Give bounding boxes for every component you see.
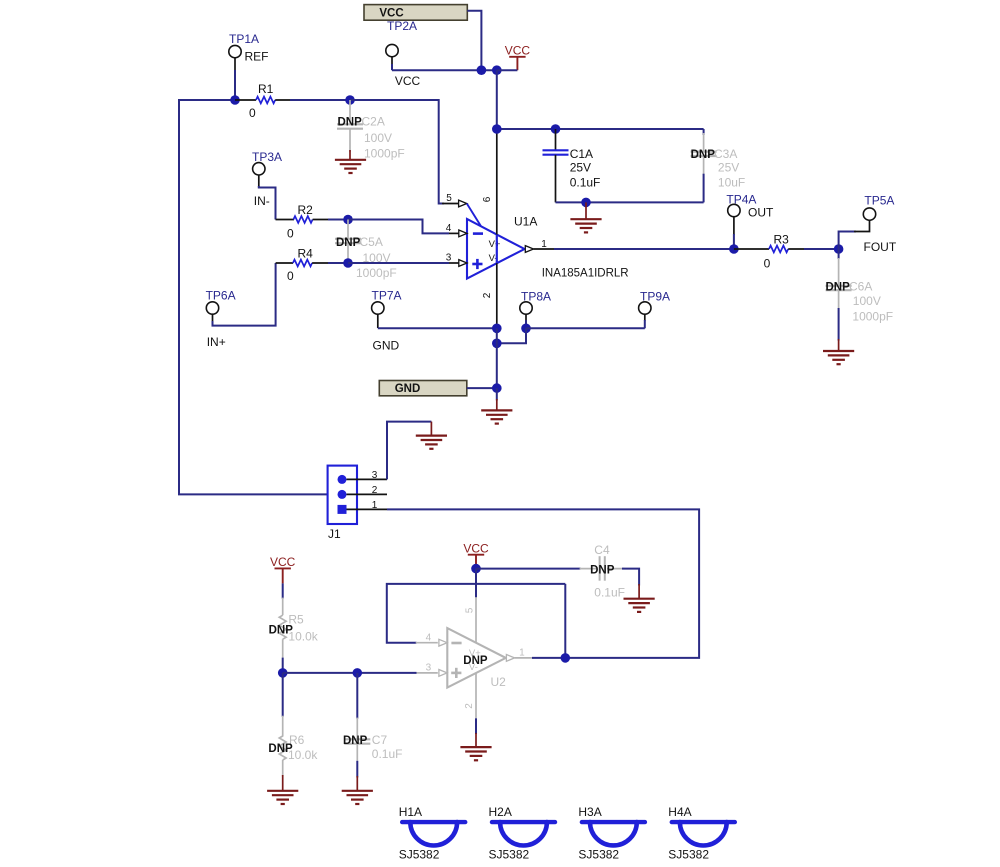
wire R2 to node [328,219,348,221]
test point TP5A [839,194,897,255]
test point TP6A [206,289,236,350]
standoff H1A [399,805,466,862]
wire C4 to ground [622,569,639,586]
J1 pin 3 [338,470,388,484]
svg-text:TP3A: TP3A [252,150,282,164]
test point TP7A [372,289,402,353]
svg-text:V+: V+ [489,239,501,250]
svg-text:1000pF: 1000pF [364,147,405,161]
ground R6 [267,775,298,804]
ground C7 [342,776,373,804]
power port VCC box [364,5,467,21]
power port GND box [379,381,467,396]
svg-text:TP2A: TP2A [387,19,417,33]
standoff H2A [489,805,556,862]
wire VCC row to C1A [497,128,704,130]
resistor R1 [235,82,292,120]
wire VCC box to junction [467,11,481,70]
svg-text:5: 5 [446,193,452,204]
svg-text:U2: U2 [491,675,507,689]
svg-text:0.1uF: 0.1uF [594,586,625,600]
wire trunk VCC down [496,70,498,129]
standoff H4A [668,805,735,862]
U1A pin 2 V- [482,263,497,328]
junction node R1/C2A [345,95,355,105]
capacitor C7 (DNP) [343,673,402,778]
svg-text:10.0k: 10.0k [288,748,318,762]
svg-text:INA185A1IDRLR: INA185A1IDRLR [542,268,629,280]
junction C1A top [551,124,561,134]
wire TP2A to VCC junction [392,64,497,70]
svg-text:J1: J1 [328,527,341,541]
svg-text:10.0k: 10.0k [288,630,318,644]
svg-text:TP6A: TP6A [206,289,236,303]
svg-text:DNP: DNP [691,149,716,161]
svg-text:1: 1 [372,500,378,511]
ground main [481,388,512,424]
svg-text:0: 0 [764,257,771,271]
wire node to U1A pin5 [350,100,459,204]
svg-text:R1: R1 [258,82,274,96]
svg-text:DNP: DNP [343,735,368,747]
svg-text:DNP: DNP [336,237,361,249]
svg-text:25V: 25V [570,160,591,174]
wire R1 to C2A node [290,99,350,101]
U1A pin 4 [446,223,467,237]
svg-text:IN-: IN- [254,194,270,208]
junction pin2/gnd [492,324,502,334]
svg-text:C1A: C1A [570,147,593,161]
wire GND box to trunk [467,387,497,389]
svg-text:C3A: C3A [714,147,737,161]
junction node OUT [729,244,739,254]
wire node IN- to U1A pin4 [348,220,459,234]
svg-text:VCC: VCC [463,542,489,556]
svg-text:DNP: DNP [590,565,615,577]
svg-text:SJ5382: SJ5382 [578,848,619,862]
svg-text:4: 4 [446,223,452,234]
U1A pin 1 output [525,239,556,252]
ground U2 [460,733,491,760]
wire TP3A to R2 [259,186,276,220]
svg-text:R4: R4 [298,247,314,261]
wire TP1A to node REF [234,70,236,100]
svg-text:0: 0 [287,227,294,241]
svg-text:U1A: U1A [514,215,537,229]
resistor R2 [276,203,331,241]
svg-text:2: 2 [464,703,475,709]
capacitor C2A (DNP) [337,100,405,161]
U1A pin 5 [446,193,481,226]
svg-text:VCC: VCC [505,44,531,58]
wire TP8A row to TP9A [526,327,645,329]
wire gnd trunk down [496,328,498,388]
svg-text:C6A: C6A [849,280,872,294]
svg-text:0: 0 [249,106,256,120]
svg-text:3: 3 [426,663,432,674]
svg-text:DNP: DNP [826,282,851,294]
junction node IN+ [343,258,353,268]
resistor R5 (DNP) [269,583,319,657]
power VCC symbol R5 [270,555,296,583]
junction TP8A [521,324,531,334]
junction VCC U2 [471,564,481,574]
test point TP9A [639,289,670,328]
svg-text:100V: 100V [853,294,881,308]
U2 pin 2 V- [464,673,476,734]
resistor R3 [734,233,806,271]
op-amp U1A [467,215,629,280]
junction VCC b [492,65,502,75]
svg-text:H2A: H2A [489,805,512,819]
svg-text:0.1uF: 0.1uF [570,176,601,190]
svg-text:SJ5382: SJ5382 [399,848,440,862]
svg-text:1: 1 [519,647,525,658]
test point TP2A [386,19,421,88]
capacitor C6A (DNP) [826,249,894,324]
wire TP8A loop to trunk [497,328,526,343]
U2 pin 3 [416,663,447,677]
svg-text:IN+: IN+ [207,335,226,349]
junction VCC/pin6 [492,124,502,134]
svg-text:1000pF: 1000pF [852,310,893,324]
U2 pin 4 [416,633,447,646]
capacitor C3A (DNP) [691,129,746,202]
wire TP6A to R4 [213,263,276,326]
junction VCC a [477,65,487,75]
svg-text:H3A: H3A [578,805,601,819]
junction node IN- [343,215,353,225]
junction U2 out [561,653,571,663]
test point TP4A [726,193,774,249]
svg-text:100V: 100V [364,131,392,145]
svg-text:SJ5382: SJ5382 [489,848,530,862]
svg-text:SJ5382: SJ5382 [668,848,709,862]
wire node row to U2 pin3 [283,672,417,674]
junction node FOUT [834,244,844,254]
power VCC symbol U2 [463,542,489,569]
test point TP1A [229,32,269,72]
capacitor C4 (DNP) [580,543,625,600]
capacitor C5A (DNP) [335,220,397,281]
ground C4 [624,584,655,612]
op-amp U2 (DNP) [447,628,506,689]
ground under C6A [823,339,854,364]
svg-text:6: 6 [482,196,493,202]
J1 pin 2 [338,485,388,499]
svg-text:0: 0 [287,269,294,283]
svg-text:H4A: H4A [668,805,691,819]
junction node R5/R6 [278,668,288,678]
svg-text:TP7A: TP7A [372,289,402,303]
svg-text:GND: GND [395,383,421,395]
test point TP8A [520,289,551,328]
U1A pin 3 [446,253,467,267]
ground under C2A [335,150,366,173]
svg-text:C7: C7 [372,733,388,747]
standoff H3A [578,805,645,862]
svg-text:TP5A: TP5A [864,194,894,208]
resistor R6 (DNP) [268,673,318,777]
junction node REF [230,95,240,105]
wire U1A output [554,248,734,250]
test point TP3A [252,150,282,208]
wire R5 to node [282,658,284,673]
ground J1 [416,422,447,449]
svg-text:C2A: C2A [362,115,385,129]
junction GND [492,383,502,393]
svg-text:R2: R2 [298,203,314,217]
J1 pin 1 [338,500,388,514]
svg-text:VCC: VCC [395,74,421,88]
wire R3 to node FOUT [804,248,839,250]
junction gnd trunk [492,339,502,349]
svg-text:VCC: VCC [270,555,296,569]
svg-text:25V: 25V [718,160,739,174]
wire U2 out [532,657,565,659]
junction node C7 [353,668,363,678]
ground under C1A [570,202,601,232]
svg-text:GND: GND [373,339,400,353]
wire REF trunk left [179,100,328,494]
svg-text:DNP: DNP [463,655,488,667]
svg-text:0.1uF: 0.1uF [372,747,403,761]
wire U2 feedback loop [387,584,566,658]
svg-text:FOUT: FOUT [864,240,897,254]
power VCC symbol top [497,44,531,71]
U1A pin 6 V+ [482,129,497,263]
resistor R4 [276,247,330,284]
svg-text:1000pF: 1000pF [356,266,397,280]
wire J1 pin1 net [387,509,699,658]
U2 pin 5 V+ [465,569,477,643]
capacitor C1A [543,129,601,202]
wire R4 to node [328,262,348,264]
svg-text:TP1A: TP1A [229,32,259,46]
wire C1A bottom row [556,201,704,203]
svg-text:5: 5 [465,607,476,613]
junction gnd C1A [581,198,591,208]
wire J1 pin3 to ground [387,422,431,480]
wire VCC to C4 [476,568,581,570]
svg-text:DNP: DNP [338,117,363,129]
svg-text:2: 2 [372,485,378,496]
wire TP7A to pin2 node [378,327,497,329]
svg-text:C5A: C5A [360,235,383,249]
wire node IN+ to U1A pin3 [348,262,459,264]
svg-text:H1A: H1A [399,805,422,819]
svg-text:10uF: 10uF [718,176,745,190]
svg-text:OUT: OUT [748,206,774,220]
svg-text:C4: C4 [594,543,610,557]
svg-text:2: 2 [482,292,493,298]
svg-text:3: 3 [446,253,452,264]
svg-text:REF: REF [245,50,269,64]
svg-text:R3: R3 [774,233,790,247]
connector J1 [328,466,357,541]
wire C6A to ground [838,308,840,341]
svg-text:3: 3 [372,470,378,481]
svg-text:VCC: VCC [379,7,403,19]
U2 pin 1 [506,647,534,661]
